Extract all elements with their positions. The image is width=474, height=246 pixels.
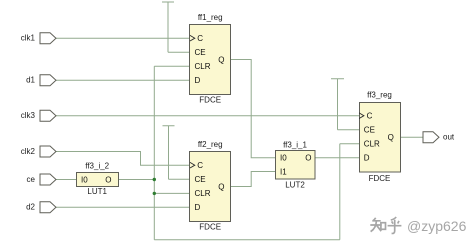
svg-text:CLR: CLR	[195, 189, 211, 198]
LUT ff3_i_1 (LUT2)	[276, 140, 316, 189]
wire LUT2/O to ff3/D	[315, 157, 359, 159]
input port clk2	[21, 146, 56, 157]
svg-text:O: O	[105, 175, 111, 184]
svg-text:ff3_i_1: ff3_i_1	[283, 140, 307, 149]
junction on CLR net at ff2 CLR feed	[153, 192, 156, 195]
svg-text:CE: CE	[195, 48, 206, 57]
wire CLR net right vertical	[339, 144, 341, 240]
svg-text:ff3_reg: ff3_reg	[367, 91, 392, 100]
svg-text:CE: CE	[364, 126, 375, 135]
svg-text:Q: Q	[388, 133, 394, 142]
svg-text:ff3_i_2: ff3_i_2	[85, 162, 109, 171]
svg-text:FDCE: FDCE	[369, 174, 391, 183]
svg-text:CE: CE	[195, 175, 206, 184]
svg-text:FDCE: FDCE	[199, 96, 221, 105]
svg-text:CLR: CLR	[364, 140, 380, 149]
flip-flop ff3_reg (FDCE)	[359, 91, 400, 183]
input port ce	[27, 174, 56, 185]
svg-text:D: D	[364, 154, 370, 163]
wire ff2/Q to LUT2/I1	[231, 172, 275, 187]
wire LUT1/O to CLR net	[119, 179, 155, 181]
wire CLR net to ff2/CLR	[154, 192, 190, 194]
svg-text:I0: I0	[280, 154, 287, 163]
svg-text:LUT2: LUT2	[285, 181, 305, 190]
clock triangle pin C ff1	[190, 35, 195, 41]
svg-text:C: C	[197, 161, 203, 170]
clock triangle pin C ff2	[190, 162, 195, 168]
svg-text:O: O	[305, 154, 311, 163]
hanzi 乎	[388, 217, 402, 233]
svg-text:C: C	[367, 112, 373, 121]
svg-text:clk2: clk2	[21, 147, 36, 156]
wire clk2 to ff2/C	[56, 152, 190, 166]
constant net T-bar to ff1/CE	[162, 2, 190, 52]
svg-text:clk3: clk3	[21, 111, 36, 120]
svg-text:D: D	[195, 76, 201, 85]
LUT ff3_i_2 (LUT1)	[77, 162, 119, 197]
watermark 知乎 @zyp626	[370, 217, 467, 235]
wire ff1/Q to LUT2/I0	[231, 60, 275, 158]
svg-text:LUT1: LUT1	[87, 187, 107, 196]
wire CLR net to ff1/CLR	[154, 65, 190, 67]
svg-text:d2: d2	[26, 203, 35, 212]
svg-text:ce: ce	[27, 175, 36, 184]
wire CLR net vertical trunk	[153, 66, 155, 240]
svg-text:out: out	[443, 133, 455, 142]
svg-text:Q: Q	[218, 55, 224, 64]
svg-text:I1: I1	[280, 167, 287, 176]
svg-text:I0: I0	[81, 175, 88, 184]
input port d2	[26, 202, 56, 213]
constant net T-bar to ff2/CE	[163, 126, 191, 180]
svg-text:C: C	[197, 34, 203, 43]
constant net T-bar to ff3/CE	[331, 79, 359, 130]
svg-text:FDCE: FDCE	[199, 223, 221, 232]
svg-text:ff2_reg: ff2_reg	[198, 140, 223, 149]
output port out	[423, 132, 455, 143]
wire ff3/Q to out port	[401, 136, 424, 138]
flip-flop ff2_reg (FDCE)	[190, 140, 231, 232]
input port clk3	[21, 110, 56, 121]
svg-text:@zyp626: @zyp626	[407, 218, 467, 234]
input port clk1	[21, 33, 56, 44]
clock triangle pin C ff3	[359, 113, 364, 119]
flip-flop ff1_reg (FDCE)	[190, 13, 231, 105]
svg-text:CLR: CLR	[195, 62, 211, 71]
svg-text:ff1_reg: ff1_reg	[198, 13, 223, 22]
wire ce to LUT1/I0	[56, 179, 76, 181]
wire d1 to ff1/D	[56, 79, 190, 81]
wire clk1 to ff1/C	[56, 37, 190, 39]
junction on CLR net at LUT1 output	[153, 178, 156, 181]
svg-text:Q: Q	[218, 182, 224, 191]
wire CLR net bottom run	[154, 239, 339, 241]
svg-text:D: D	[195, 203, 201, 212]
wire clk3 to ff3/C	[56, 115, 359, 117]
wire CLR net to ff3/CLR	[340, 143, 359, 145]
input port d1	[26, 75, 56, 86]
svg-text:d1: d1	[26, 76, 35, 85]
wire d2 to ff2/D	[56, 206, 190, 208]
hanzi 知	[370, 218, 381, 232]
svg-text:clk1: clk1	[21, 34, 36, 43]
